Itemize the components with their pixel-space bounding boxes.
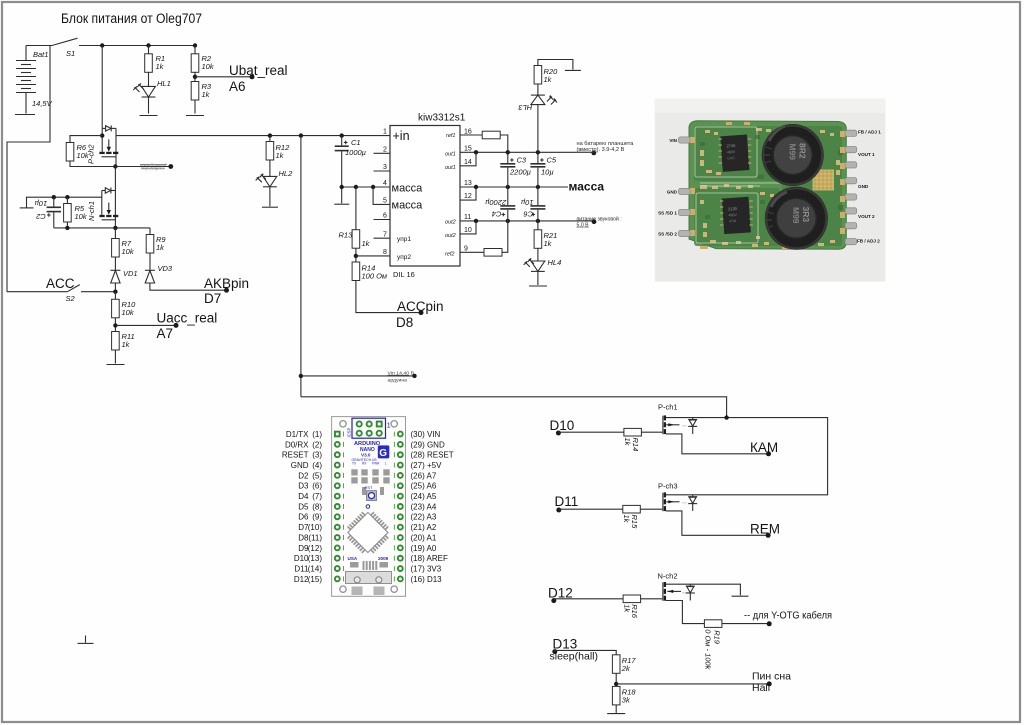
capacitor C5 [530,152,557,187]
svg-text:VD3: VD3 [158,264,173,273]
diode VD3 [145,264,227,290]
svg-text:Блок питания от Oleg707: Блок питания от Oleg707 [61,11,202,26]
transistor N-ch1 [87,167,118,228]
svg-text:(5): (5) [312,471,322,480]
resistor R6 [66,136,115,167]
ground above R20 [565,69,581,71]
svg-text:S2: S2 [66,294,76,303]
svg-text:HL3: HL3 [518,103,533,112]
svg-text:HL4: HL4 [548,258,562,267]
svg-text:масса: масса [392,183,424,195]
svg-text:Uacc_real: Uacc_real [157,311,218,326]
svg-text:(7): (7) [312,492,322,501]
svg-text:D10: D10 [550,418,575,433]
svg-text:sleep(hall): sleep(hall) [550,651,599,663]
resistor R17 [612,655,620,674]
svg-text:FB / ADJ 2: FB / ADJ 2 [857,239,880,244]
node ACC junction [113,290,117,294]
inductor L2 3R3 [765,187,828,250]
svg-text:D2: D2 [298,471,309,480]
svg-text:R13: R13 [339,231,354,240]
svg-text:1k: 1k [544,239,553,248]
wire battery to ACC (left tall wire) [7,46,50,292]
resistor R16 [623,595,641,603]
svg-text:(9): (9) [312,513,322,522]
svg-text:out2: out2 [445,220,456,226]
resistor R18 [612,686,620,705]
svg-text:на батарею планшета: на батарею планшета [577,141,635,147]
wire P-ch1 source rail [666,418,828,495]
svg-text:(18) AREF: (18) AREF [411,554,448,563]
node Ubat junction [193,75,197,79]
svg-text:out2: out2 [445,233,456,239]
svg-text:VOUT 2: VOUT 2 [858,214,875,219]
svg-text:(29) GND: (29) GND [411,440,445,449]
svg-text:D13: D13 [553,637,578,652]
resistor R21 [534,221,557,261]
svg-text:HL2: HL2 [279,169,294,178]
svg-text:1k: 1k [202,90,211,99]
svg-text:10k: 10k [202,62,215,71]
wire W2 to P-ch1 [301,397,727,418]
node KAM [766,451,771,456]
svg-text:C5: C5 [547,156,557,165]
svg-text:REM: REM [750,522,780,537]
svg-text:игл: игл [683,424,688,428]
pin14 hook [460,152,476,166]
resistor R10 [112,292,136,332]
svg-text:D0/RX: D0/RX [285,440,309,449]
svg-text:(10): (10) [308,523,323,532]
svg-text:(4): (4) [312,461,322,470]
svg-text:(20) A1: (20) A1 [411,533,437,542]
bottom SMD parts [350,561,388,570]
svg-text:460V: 460V [728,213,737,218]
svg-text:ардуина: ардуина [388,377,408,382]
svg-text:ICSP: ICSP [347,428,352,438]
svg-text:10k: 10k [122,308,135,317]
svg-text:4: 4 [383,180,387,187]
svg-text:10k: 10k [122,247,135,256]
svg-text:C6: C6 [523,209,533,218]
svg-text:игл: игл [683,501,688,505]
svg-text:(16) D13: (16) D13 [411,575,443,584]
svg-text:(25) A6: (25) A6 [411,482,437,491]
svg-text:RESET: RESET [282,451,309,460]
pin16 resistor link [460,131,508,152]
svg-text:(21) A2: (21) A2 [411,523,437,532]
ground under HL4 [529,285,547,287]
svg-text:P-ch3: P-ch3 [658,482,678,491]
svg-text:0 Ом - 100k: 0 Ом - 100k [704,629,713,670]
svg-text:HL1: HL1 [157,79,171,88]
capacitor C1 [335,133,366,203]
pin9 resistor link [460,221,508,256]
svg-text:A7: A7 [157,326,174,341]
node audio out [592,219,597,224]
svg-text:2740: 2740 [726,143,736,149]
svg-text:(22) A3: (22) A3 [411,513,437,522]
svg-text:SS /SD 2: SS /SD 2 [658,232,677,237]
svg-text:out1: out1 [445,152,456,158]
ground under R18 [607,713,625,715]
svg-text:47W: 47W [729,219,737,224]
svg-text:КАМ: КАМ [750,440,778,455]
pin 5 stub [373,187,390,204]
ground under R11 [107,364,125,366]
resistor R3 [191,82,212,114]
svg-text:(13): (13) [308,554,323,563]
svg-text:D10: D10 [294,554,309,563]
arduino pin rows [334,431,341,438]
ground under battery [15,114,35,116]
svg-text:C2: C2 [35,212,45,221]
svg-text:Vin 14,40 В: Vin 14,40 В [388,370,415,375]
node Y-OTG [767,621,772,626]
svg-text:RST: RST [365,485,374,490]
resistor R5 [64,195,88,228]
pin 3 stub [374,170,391,172]
svg-text:AKBpin: AKBpin [204,276,249,291]
pin 8 wire [356,255,390,257]
wire to Uacc_real [115,324,176,326]
ground under C1 [334,203,349,205]
svg-text:упр1: упр1 [397,236,411,243]
svg-text:ref2: ref2 [445,251,454,257]
node P-ch2 drain [113,164,117,168]
ground N-ch2 [732,595,749,597]
svg-text:D1/TX: D1/TX [286,430,309,439]
module pin labels [658,130,881,244]
svg-text:3: 3 [383,164,387,171]
wire масса left [342,186,390,188]
svg-text:питание звуковой :: питание звуковой : [577,215,622,222]
svg-text:N-ch1: N-ch1 [87,201,96,221]
svg-text:D8: D8 [396,315,413,330]
svg-text:(6): (6) [312,482,322,491]
svg-text:(27) +5V: (27) +5V [411,461,443,470]
svg-text:8: 8 [383,249,387,256]
Arduino Nano board [332,417,406,597]
node Uacc junction [113,323,117,327]
svg-text:(14): (14) [308,564,323,573]
capacitor C2 [35,195,61,228]
PCB silkscreen texture [695,127,780,243]
svg-text:L: L [385,462,387,466]
node top rail R1 [100,43,104,47]
resistor R13 [339,187,371,262]
svg-text:масса: масса [569,180,605,194]
svg-text:Пин сна: Пин сна [752,671,791,683]
svg-text:тянуть батарею к: тянуть батарею к [141,167,164,171]
svg-text:D6: D6 [298,513,309,522]
svg-text:PWR: PWR [372,462,380,466]
svg-text:упр2: упр2 [397,254,411,261]
ICSP header [347,418,391,438]
node battery tablet out [591,151,596,156]
body diode N-ch2 [689,584,691,586]
svg-text:P-ch1: P-ch1 [658,403,678,412]
svg-text:12: 12 [464,193,472,200]
ground under HL1 [140,115,158,117]
wire N-ch2 drain to R19 [666,601,704,624]
resistor R14 (D10) [624,428,642,436]
IC U1 kiw3312s1 [390,113,466,280]
inductor L1 8R2 [762,124,824,186]
svg-text:10: 10 [464,227,472,234]
svg-text:10k: 10k [77,151,90,160]
svg-text:kiw3312s1: kiw3312s1 [418,113,466,124]
svg-text:R16: R16 [630,604,639,619]
mini USB connector [346,572,392,596]
ground hook left of C2 [20,197,102,208]
wire D12 to R16 [554,598,623,600]
svg-text:(15): (15) [308,575,323,584]
wire Vin tap [301,375,415,377]
svg-text:GND: GND [291,461,309,470]
svg-text:Hall: Hall [752,682,770,694]
svg-text:D12: D12 [294,575,309,584]
svg-text:14: 14 [464,159,472,166]
wire D13 to R17 [555,650,616,654]
svg-text:8R2: 8R2 [798,143,808,159]
node ACCpin D8 [419,310,424,315]
photo of DC-DC module [655,99,886,282]
svg-text:10k: 10k [75,212,88,221]
svg-text:100 Ом: 100 Ом [362,272,388,281]
svg-text:SS /SD 1: SS /SD 1 [658,211,677,216]
wire N-ch2 source to ground [666,584,740,595]
node pin8 R13 R14 [354,254,358,258]
svg-text:CAD: CAD [727,156,735,161]
svg-text:(28) RESET: (28) RESET [411,451,454,460]
svg-text:1: 1 [383,129,387,136]
resistor R9 [146,228,166,270]
svg-text:(8): (8) [312,502,322,511]
pin10 hook [460,221,476,234]
svg-text:11: 11 [464,214,471,221]
LED HL2 [256,160,293,206]
resistor R15 [623,505,641,513]
svg-text:1k: 1k [122,340,131,349]
node V1 top [299,133,303,137]
resistor R1 [145,46,165,73]
svg-text:-- для Y-OTG кабеля: -- для Y-OTG кабеля [744,610,832,622]
node top rail R2 [146,43,150,47]
QFP MCU chip [341,506,394,559]
svg-text:15: 15 [464,145,472,152]
svg-text:(19) A0: (19) A0 [411,544,437,553]
svg-text:R14: R14 [631,438,640,452]
svg-text:ACCpin: ACCpin [397,299,444,314]
svg-text:D4: D4 [298,492,309,501]
PCB board [689,121,846,250]
wire P-ch3 drain to REM [666,511,768,535]
svg-text:D11: D11 [555,494,579,509]
svg-text:10µ: 10µ [541,168,554,177]
wire note (tiny text) [115,163,173,171]
wire D10 to R14 [558,431,624,433]
wire to Hall pin [616,683,769,685]
svg-text:(24) A5: (24) A5 [411,492,437,501]
node REM [766,533,771,538]
svg-text:USA: USA [348,556,358,561]
svg-text:C4: C4 [492,209,502,218]
svg-text:3k: 3k [622,696,631,705]
svg-text:1: 1 [387,423,391,430]
svg-text:1k: 1k [362,239,371,248]
svg-text:V3.0: V3.0 [361,453,371,458]
svg-text:2200µ: 2200µ [509,168,531,177]
svg-text:C3: C3 [517,156,527,165]
node Ubat_real A6 [250,74,255,79]
wire D11 to R15 [559,508,623,510]
svg-text:2130: 2130 [728,206,738,212]
wire P-ch1 drain to KAM [666,434,769,454]
svg-text:GND: GND [858,184,869,189]
svg-text:9: 9 [464,245,468,252]
svg-text:A6: A6 [229,79,246,94]
switch S1 [26,38,195,58]
wire масса right [460,186,568,188]
reset button [367,491,377,501]
svg-text:7: 7 [383,231,387,238]
LED HL3 [518,84,558,152]
IC chips on module [719,135,753,235]
svg-text:(2): (2) [312,440,322,449]
svg-text:D3: D3 [298,482,309,491]
resistor R7 [112,228,135,270]
svg-text:2009: 2009 [378,556,389,561]
svg-text:R19: R19 [712,630,721,645]
transistor P-ch2 [87,46,119,167]
svg-text:(30) VIN: (30) VIN [411,430,441,439]
svg-text:10µ: 10µ [521,198,534,207]
LED HL4 [524,258,562,285]
pin 6 stub [374,219,391,221]
svg-text:(12): (12) [308,544,323,553]
svg-text:M99: M99 [788,144,798,161]
svg-text:1k: 1k [622,604,631,613]
svg-text:1k: 1k [622,515,631,524]
svg-text:Ubat_real: Ubat_real [229,63,288,78]
svg-text:2: 2 [383,146,387,153]
svg-text:6: 6 [383,213,387,220]
lone ground symbol [78,636,94,644]
ground under R3 [186,115,204,117]
resistor R14 [352,262,421,313]
svg-text:VD1: VD1 [123,269,138,278]
svg-text:2k: 2k [621,664,631,673]
svg-text:3R3: 3R3 [801,207,811,223]
svg-text:1k: 1k [276,151,285,160]
body diode P-ch3 [692,495,694,497]
svg-text:S1: S1 [66,49,75,58]
resistor R19 [704,620,722,628]
node P-ch1 source / W2 [724,415,728,419]
svg-text:(11): (11) [308,533,322,542]
module pins left [679,137,691,237]
pin 2 stub [374,152,391,154]
wire to Ubat_real [195,76,252,78]
battery Bat1 [16,46,53,114]
svg-text:GND: GND [667,190,678,195]
svg-text:ref1: ref1 [446,133,455,139]
resistor R20 [534,60,573,85]
resistor R12 [266,133,290,160]
svg-text:2200µ: 2200µ [485,198,507,207]
module pins right [845,130,857,245]
svg-text:DIL 16: DIL 16 [393,270,415,279]
svg-text:M99: M99 [791,207,801,224]
capacitor C3 [500,152,531,187]
svg-text:(3): (3) [312,451,322,460]
SMD parts upper [351,469,389,495]
svg-text:1k: 1k [156,243,165,252]
svg-text:VOUT 1: VOUT 1 [858,152,875,157]
svg-text:игл: игл [683,590,688,594]
svg-text:D7: D7 [204,291,221,306]
svg-text:5: 5 [383,198,387,205]
svg-text:VIN: VIN [669,138,677,143]
resistor R2 [191,46,215,82]
svg-text:13: 13 [464,180,472,187]
node hall divider [614,682,618,686]
switch S2 ACC [7,276,115,303]
svg-text:Bat1: Bat1 [33,50,48,59]
ground under HL2 [262,206,278,208]
svg-text:масса: масса [392,200,424,212]
capacitor C6 [521,187,545,221]
pin12 hook [460,187,476,200]
svg-text:1k: 1k [544,75,553,84]
body diode P-ch1 [692,418,694,420]
pin11 wire [460,220,594,222]
Arduino silkscreen text [352,441,390,466]
wire V1 down to arduino Vin rail [300,136,302,397]
svg-text:G: G [379,448,387,459]
svg-text:1k: 1k [623,438,632,447]
svg-text:out1: out1 [445,165,456,171]
node AKBpin D7 [224,288,229,293]
svg-text:R15: R15 [630,515,639,530]
svg-text:(26) A7: (26) A7 [411,471,437,480]
svg-text:+in: +in [393,129,410,143]
svg-text:10µ: 10µ [35,199,48,208]
wire W1 gate rail to kiw pin1 [116,135,390,137]
svg-text:(1): (1) [312,430,322,439]
svg-text:C1: C1 [351,138,361,147]
node Vin tap [299,374,303,378]
diode VD1 [110,269,137,292]
wire bottom of N-ch1 [54,227,150,229]
svg-text:D5: D5 [298,502,309,511]
resistor R11 [112,332,135,364]
svg-text:1000µ: 1000µ [345,148,366,157]
pin 7 stub [374,237,391,239]
LED HL1 [133,72,170,113]
pin15 wire [460,151,594,153]
svg-text:(17) 3V3: (17) 3V3 [411,564,442,573]
svg-text:N-ch2: N-ch2 [658,572,678,581]
svg-text:460V: 460V [727,150,736,155]
svg-text:1k: 1k [156,62,165,71]
svg-text:FB / ADJ 1: FB / ADJ 1 [858,130,881,135]
svg-text:ACC: ACC [46,276,75,291]
svg-text:(23) A4: (23) A4 [411,502,437,511]
capacitor C4 [485,187,515,221]
